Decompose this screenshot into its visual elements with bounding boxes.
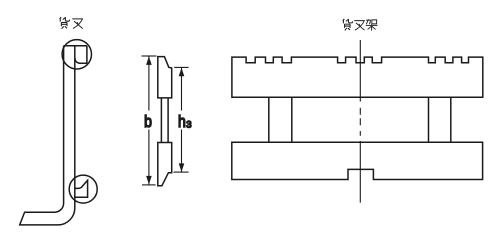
- top notched bar: [232, 57, 483, 97]
- dimension b: [142, 56, 157, 185]
- bottom bar with center notch: [232, 142, 483, 179]
- left hanger plate: [269, 97, 292, 142]
- fork outline (shank + blade): [20, 46, 75, 225]
- svg-text:b: b: [144, 112, 152, 131]
- detail circle (lower hook): [69, 175, 97, 203]
- bottom flange: [158, 143, 172, 186]
- fork upper hook: [75, 46, 87, 64]
- fork lower hook: [75, 180, 87, 197]
- top flange: [158, 57, 172, 98]
- label 货叉架: [343, 19, 378, 31]
- fork top edge: [64, 45, 87, 47]
- dimension h3: [174, 67, 189, 172]
- label 货叉: [60, 17, 83, 29]
- centerline (dash-dot): [359, 40, 361, 203]
- web: [161, 98, 168, 143]
- svg-text:3: 3: [186, 119, 191, 130]
- detail circle (upper hook): [62, 40, 91, 69]
- right hanger plate: [429, 97, 451, 142]
- svg-text:h: h: [178, 112, 186, 131]
